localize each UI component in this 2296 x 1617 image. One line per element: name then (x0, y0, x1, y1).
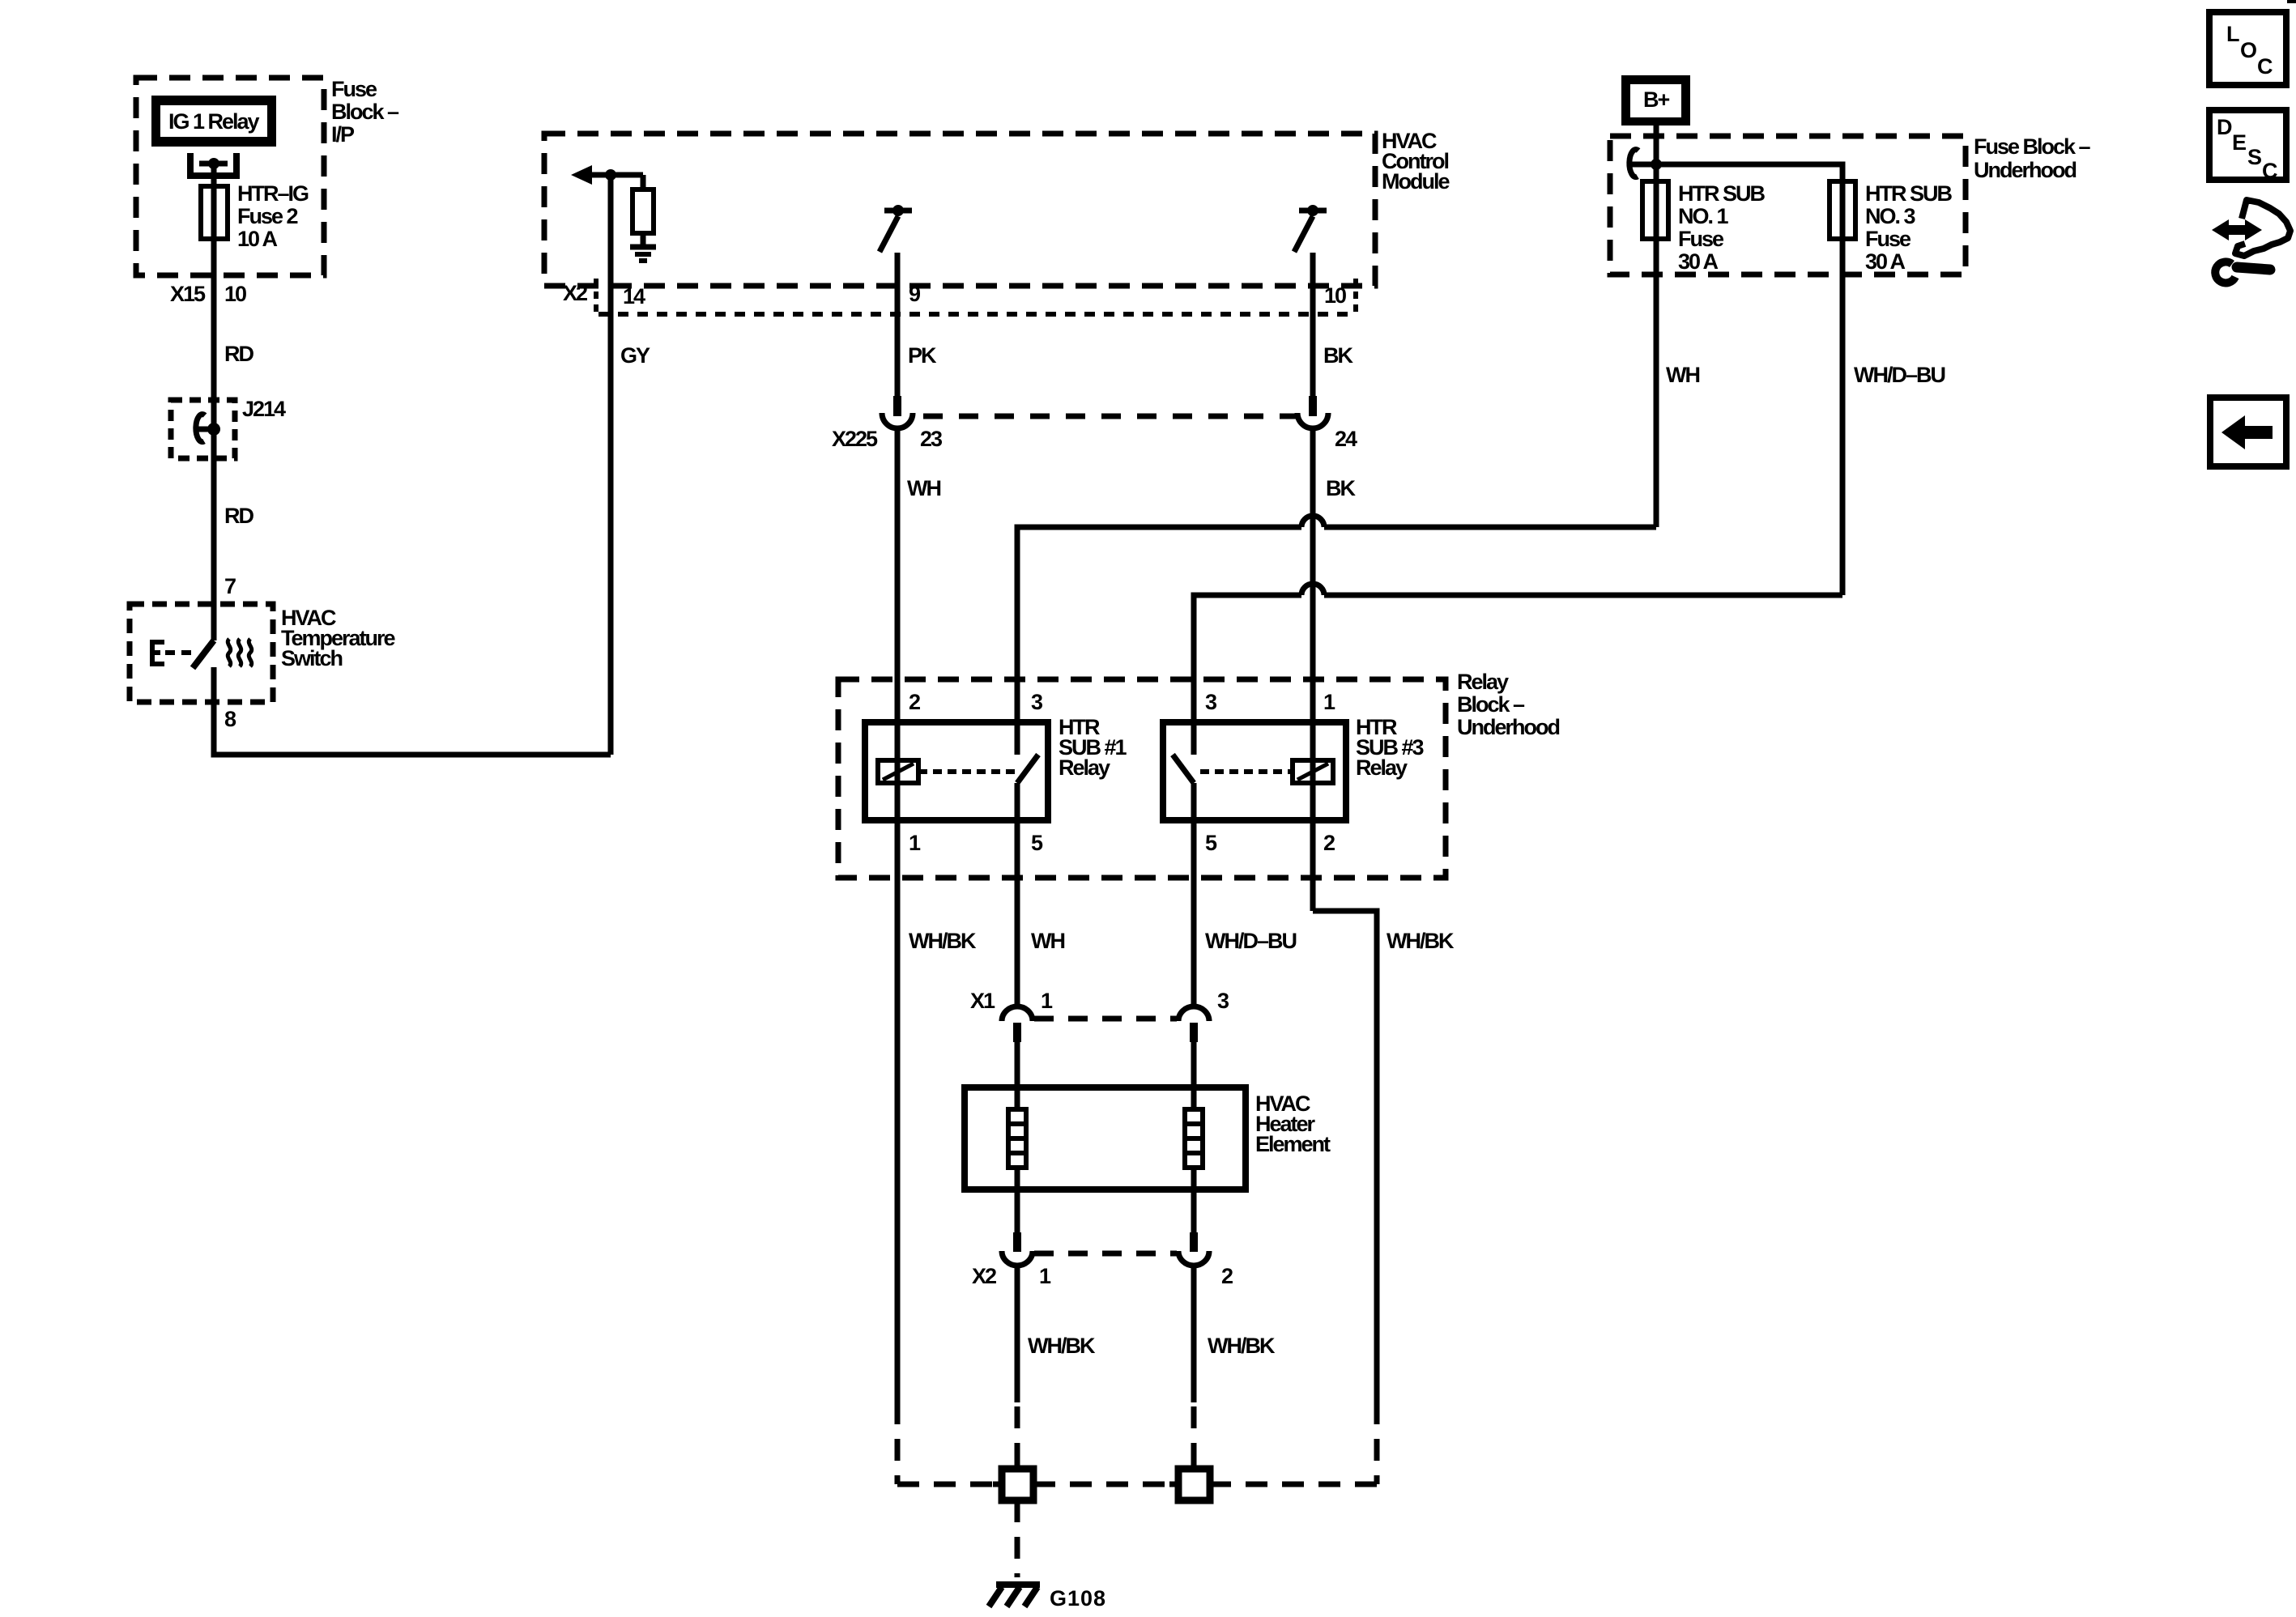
wire relay3 pin5 to X1-3 (1191, 783, 1197, 1006)
connector X1 pin 1 (970, 989, 1053, 1042)
svg-text:Fuse: Fuse (331, 77, 377, 101)
svg-text:3: 3 (1205, 690, 1217, 714)
wire labels WH/BK WH WH/D-BU WH/BK (909, 929, 1455, 953)
Fuse Block - Underhood dashed box (1610, 134, 2091, 274)
svg-text:D: D (2217, 115, 2232, 139)
svg-text:I/P: I/P (331, 122, 355, 147)
svg-text:BK: BK (1326, 476, 1356, 500)
wire A: fuse1 WH to relay1 pin 3 (hops BK) (1017, 516, 1656, 755)
connector X2 dashed row (bottom) (1034, 1251, 1177, 1257)
svg-text:Switch: Switch (281, 646, 343, 670)
connector X2 row labels and separators (563, 279, 1356, 314)
wire labels WH and WH/D-BU (1666, 363, 1945, 387)
svg-text:E: E (2232, 130, 2246, 155)
svg-text:Underhood: Underhood (1974, 158, 2076, 182)
wire RD trunk (fuse to switch) (211, 164, 217, 640)
svg-text:WH/D–BU: WH/D–BU (1854, 363, 1945, 387)
svg-text:30 A: 30 A (1865, 249, 1906, 274)
svg-text:X1: X1 (970, 989, 995, 1013)
svg-text:WH/BK: WH/BK (1387, 929, 1455, 953)
HVAC Control Module dashed box (544, 129, 1450, 286)
svg-text:24: 24 (1335, 427, 1357, 451)
svg-text:PK: PK (908, 343, 937, 368)
svg-text:HTR–IG: HTR–IG (237, 181, 309, 206)
svg-text:Relay: Relay (1059, 755, 1110, 780)
fuse HTR-IG Fuse 2 10 A (201, 181, 309, 251)
wire labels GY PK BK (620, 343, 1353, 368)
svg-text:HTR SUB: HTR SUB (1678, 181, 1765, 206)
svg-text:WH/BK: WH/BK (1208, 1334, 1276, 1358)
svg-text:3: 3 (1031, 690, 1043, 714)
wire PK (pin 9 to X225-23) (895, 253, 901, 396)
wire relay3 pin2 jog right WH/BK (1313, 911, 1377, 1402)
icon back arrow (2210, 398, 2286, 466)
svg-text:2: 2 (1323, 831, 1335, 855)
svg-text:14: 14 (623, 284, 645, 309)
wire relay1 pin5 to X1-1 (1015, 783, 1020, 1006)
connector X2 pin 2 (bottom) (1178, 1232, 1233, 1288)
resistor (module internal) (633, 175, 654, 245)
svg-text:Relay: Relay (1356, 755, 1408, 780)
splice J214 (171, 397, 286, 458)
svg-text:B+: B+ (1643, 87, 1669, 112)
svg-text:Fuse Block –: Fuse Block – (1974, 134, 2091, 159)
svg-text:BK: BK (1323, 343, 1353, 368)
wire GY riser to HVAC module (608, 175, 614, 755)
svg-text:Block –: Block – (1457, 692, 1525, 717)
icon DESC (2209, 110, 2286, 183)
svg-text:9: 9 (909, 282, 921, 306)
svg-text:3: 3 (1217, 989, 1229, 1013)
wire BK (pin 10 to X225-24) (1310, 253, 1316, 396)
svg-text:WH: WH (907, 476, 940, 500)
relay 3 label (1356, 715, 1425, 780)
svg-text:5: 5 (1031, 831, 1043, 855)
relay 3 pin labels (1205, 690, 1335, 855)
ground (module internal) (630, 247, 656, 261)
switch pin 10 (module internal) (1294, 205, 1327, 252)
splice hook in fuse block (1629, 150, 1662, 177)
svg-text:7: 7 (224, 574, 236, 598)
svg-text:10: 10 (1324, 283, 1346, 308)
HVAC Temperature Switch (130, 604, 396, 702)
icon wrench with arrows (2212, 200, 2290, 283)
relay 3 coil (1293, 760, 1333, 783)
relay 1 coil (878, 760, 918, 783)
svg-text:NO. 1: NO. 1 (1678, 204, 1729, 228)
page corner mark (2287, 0, 2296, 3)
relay 1 label (1059, 715, 1127, 780)
relay 3 coil-switch dashed link (1200, 769, 1293, 774)
relay 1 switch blade (1017, 755, 1038, 783)
svg-text:RD: RD (224, 504, 253, 528)
connector X15 pin 10 labels (170, 282, 246, 306)
svg-text:X225: X225 (832, 427, 878, 451)
svg-text:GY: GY (620, 343, 650, 368)
svg-text:Fuse 2: Fuse 2 (237, 204, 298, 228)
connector X225 pin 24 (1297, 396, 1357, 451)
svg-text:X15: X15 (170, 282, 206, 306)
splice square 1 (993, 1460, 1042, 1509)
relay 3 switch blade (1173, 755, 1194, 783)
svg-text:8: 8 (224, 707, 236, 731)
connector X1 pin 3 (1178, 989, 1229, 1042)
svg-text:X2: X2 (563, 281, 587, 305)
svg-text:S: S (2247, 145, 2261, 169)
svg-text:2: 2 (1221, 1264, 1233, 1288)
B+ terminal (1621, 75, 1690, 126)
svg-text:5: 5 (1205, 831, 1217, 855)
wire from switch pin 8 to GY riser (214, 667, 611, 755)
wire BK (X225-24 through relay 3 pin 1) (1310, 428, 1316, 911)
svg-text:1: 1 (1323, 690, 1335, 714)
svg-text:O: O (2240, 38, 2256, 62)
connector X2 pin 1 (bottom) (972, 1232, 1051, 1288)
svg-text:J214: J214 (242, 397, 286, 421)
svg-text:HTR SUB: HTR SUB (1865, 181, 1952, 206)
wire labels WH/BK bottom (1028, 1334, 1276, 1358)
heater element 1 (1008, 1042, 1026, 1232)
svg-text:1: 1 (1041, 989, 1053, 1013)
pin 8 label (224, 707, 236, 731)
wires X2 to ground splices (1017, 1266, 1194, 1402)
svg-text:X2: X2 (972, 1264, 996, 1288)
svg-text:IG 1 Relay: IG 1 Relay (168, 109, 260, 134)
splice square 2 (1169, 1460, 1219, 1500)
wire labels WH BK (below X225) (907, 476, 1356, 500)
wire label RD lower (224, 504, 253, 528)
fuse HTR SUB NO.3 30A (1830, 181, 1952, 274)
arrow out (module internal) (571, 165, 643, 185)
connector X225 pin 23 (832, 396, 943, 451)
svg-text:L: L (2226, 22, 2239, 46)
Fuse Block - I/P dashed box (136, 77, 399, 275)
dashed wire to G108 (1015, 1500, 1020, 1577)
svg-text:Element: Element (1255, 1132, 1331, 1156)
switch pin 9 (module internal) (880, 205, 912, 252)
dashed ground bus (horizontal) (897, 1482, 1377, 1487)
svg-text:30 A: 30 A (1678, 249, 1719, 274)
ground G108 (989, 1585, 1106, 1611)
wire B: fuse3 WH/D-BU to relay3 pin 3 (hops BK) (1194, 584, 1842, 755)
wire label RD upper (224, 342, 253, 366)
svg-text:Block –: Block – (331, 100, 399, 124)
svg-text:Fuse: Fuse (1865, 227, 1911, 251)
node junction dot (605, 169, 616, 181)
svg-text:10: 10 (224, 282, 246, 306)
relay HTR SUB #1 box (865, 722, 1048, 820)
svg-text:WH: WH (1666, 363, 1699, 387)
dashed ground wires (verticals) (897, 1402, 1377, 1484)
svg-text:NO. 3: NO. 3 (1865, 204, 1916, 228)
wire B+ feed down through fuse 1 (1654, 126, 1659, 527)
svg-text:1: 1 (909, 831, 921, 855)
wire feed to fuse 3 (1656, 164, 1842, 595)
svg-text:Fuse: Fuse (1678, 227, 1724, 251)
fuse HTR SUB NO.1 30A (1642, 181, 1765, 274)
fuse holder cup (190, 153, 236, 176)
svg-text:10 A: 10 A (237, 227, 278, 251)
IG 1 Relay (151, 96, 276, 147)
relay HTR SUB #3 box (1163, 722, 1346, 820)
svg-text:WH/BK: WH/BK (1028, 1334, 1096, 1358)
icon LOC (2209, 12, 2286, 85)
relay 1 coil-switch dashed link (918, 769, 1015, 774)
svg-text:RD: RD (224, 342, 253, 366)
relay 1 pin labels (909, 690, 1043, 855)
svg-text:2: 2 (909, 690, 920, 714)
svg-text:WH/BK: WH/BK (909, 929, 977, 953)
connector X225 dashed row (923, 414, 1298, 419)
svg-text:1: 1 (1039, 1264, 1051, 1288)
svg-text:Relay: Relay (1457, 670, 1509, 694)
heater element 2 (1185, 1042, 1203, 1232)
Relay Block - Underhood dashed box (838, 670, 1559, 878)
svg-text:G108: G108 (1050, 1586, 1106, 1611)
pin 7 label (224, 574, 236, 598)
HVAC Heater Element box (965, 1087, 1331, 1189)
connector X1 dashed row (1034, 1016, 1177, 1022)
wire WH (X225-23 to relay coil pin 2/1) (895, 428, 901, 1402)
svg-text:WH: WH (1031, 929, 1064, 953)
svg-text:C: C (2262, 159, 2277, 183)
svg-text:23: 23 (920, 427, 943, 451)
svg-text:Underhood: Underhood (1457, 715, 1559, 739)
svg-text:WH/D–BU: WH/D–BU (1205, 929, 1296, 953)
svg-text:C: C (2257, 54, 2273, 79)
svg-text:Module: Module (1382, 169, 1450, 194)
